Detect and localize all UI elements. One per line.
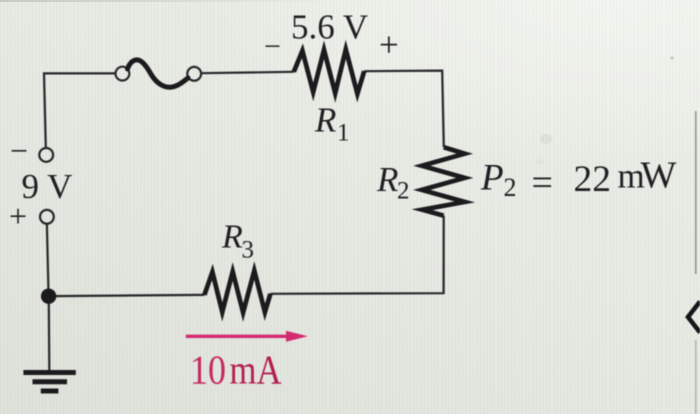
svg-text:5.6 V: 5.6 V — [291, 8, 368, 47]
svg-text:R: R — [314, 101, 336, 140]
svg-text:10: 10 — [190, 347, 226, 393]
svg-text:W: W — [641, 155, 677, 197]
svg-text:+: + — [379, 26, 399, 65]
svg-text:2: 2 — [397, 178, 410, 205]
svg-text:+: + — [9, 198, 27, 234]
svg-text:R: R — [221, 219, 243, 256]
svg-text:R: R — [376, 160, 398, 199]
svg-text:1: 1 — [337, 120, 350, 147]
svg-text:=: = — [532, 162, 553, 204]
svg-text:22: 22 — [574, 159, 612, 200]
svg-text:P: P — [480, 158, 504, 199]
svg-text:−: − — [10, 133, 28, 169]
svg-text:3: 3 — [242, 237, 255, 264]
svg-text:9 V: 9 V — [22, 167, 73, 206]
svg-text:mA: mA — [230, 347, 282, 393]
svg-text:2: 2 — [504, 173, 517, 202]
svg-text:−: − — [264, 30, 281, 63]
